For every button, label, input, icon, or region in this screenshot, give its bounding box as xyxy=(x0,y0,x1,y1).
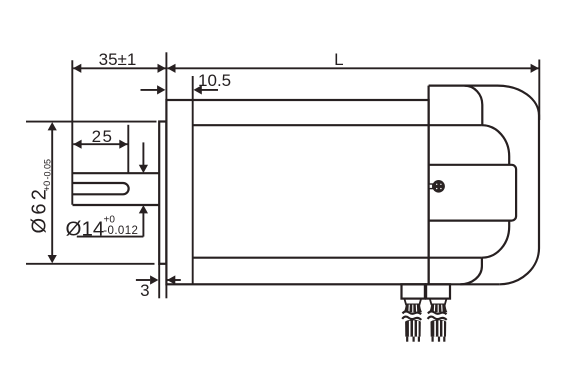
middle cover corner (top) xyxy=(482,125,509,165)
strain relief collar xyxy=(404,299,421,305)
wire exit right xyxy=(428,299,448,342)
center plate xyxy=(429,165,516,221)
rear housing front face xyxy=(428,86,430,285)
body lower silhouette line xyxy=(193,257,482,259)
rear outer cover inner lip (top) xyxy=(465,86,483,126)
cable gland box 2 xyxy=(426,284,450,298)
wire break wave 1 xyxy=(403,311,422,314)
wire exit left xyxy=(402,299,422,342)
dimension 10.5 xyxy=(141,89,219,91)
label Ø62 +0/-0.05 (rotated) xyxy=(29,159,54,234)
svg-text:10.5: 10.5 xyxy=(198,71,231,90)
rear outer cover outline xyxy=(429,86,539,285)
svg-text:25: 25 xyxy=(92,127,114,146)
body upper silhouette line xyxy=(193,124,482,126)
dimension 3 xyxy=(136,264,181,299)
dimension 25 xyxy=(73,125,128,173)
wire end pins xyxy=(406,337,420,342)
svg-text:+0: +0 xyxy=(104,215,116,226)
svg-text:35±1: 35±1 xyxy=(99,50,137,69)
svg-text:Ø62: Ø62 xyxy=(29,186,51,234)
shaft end / 35 extension line xyxy=(71,60,73,205)
lower wire bundle xyxy=(405,320,421,337)
shaft keyway flat slot xyxy=(73,183,129,194)
rear outer cover inner lip (bottom) xyxy=(460,258,482,285)
svg-text:Ø14: Ø14 xyxy=(66,217,105,240)
svg-text:+0: +0 xyxy=(42,181,53,192)
screw head xyxy=(432,180,445,193)
wire break wave 2 xyxy=(402,317,421,320)
dimension L xyxy=(166,52,539,120)
middle cover corner (bottom) xyxy=(482,221,509,258)
svg-text:L: L xyxy=(334,50,343,69)
motor body outline xyxy=(166,100,428,284)
dimension 35±1 xyxy=(73,67,165,69)
shaft bottom line xyxy=(73,204,160,206)
screw tab xyxy=(429,184,433,189)
front mounting flange xyxy=(159,122,166,264)
front endbell joint / 10.5 extension line xyxy=(192,76,194,284)
svg-text:3: 3 xyxy=(140,281,149,300)
upper wire tuft xyxy=(404,305,422,313)
dimension Ø62 xyxy=(26,122,157,264)
svg-text:-0.012: -0.012 xyxy=(103,225,138,237)
cable gland box 1 xyxy=(402,284,425,298)
dimension Ø14 leader xyxy=(77,142,144,236)
body bottom line extension under rear cover xyxy=(429,283,500,285)
shaft top line xyxy=(73,172,160,174)
svg-text:-0.05: -0.05 xyxy=(42,159,52,180)
